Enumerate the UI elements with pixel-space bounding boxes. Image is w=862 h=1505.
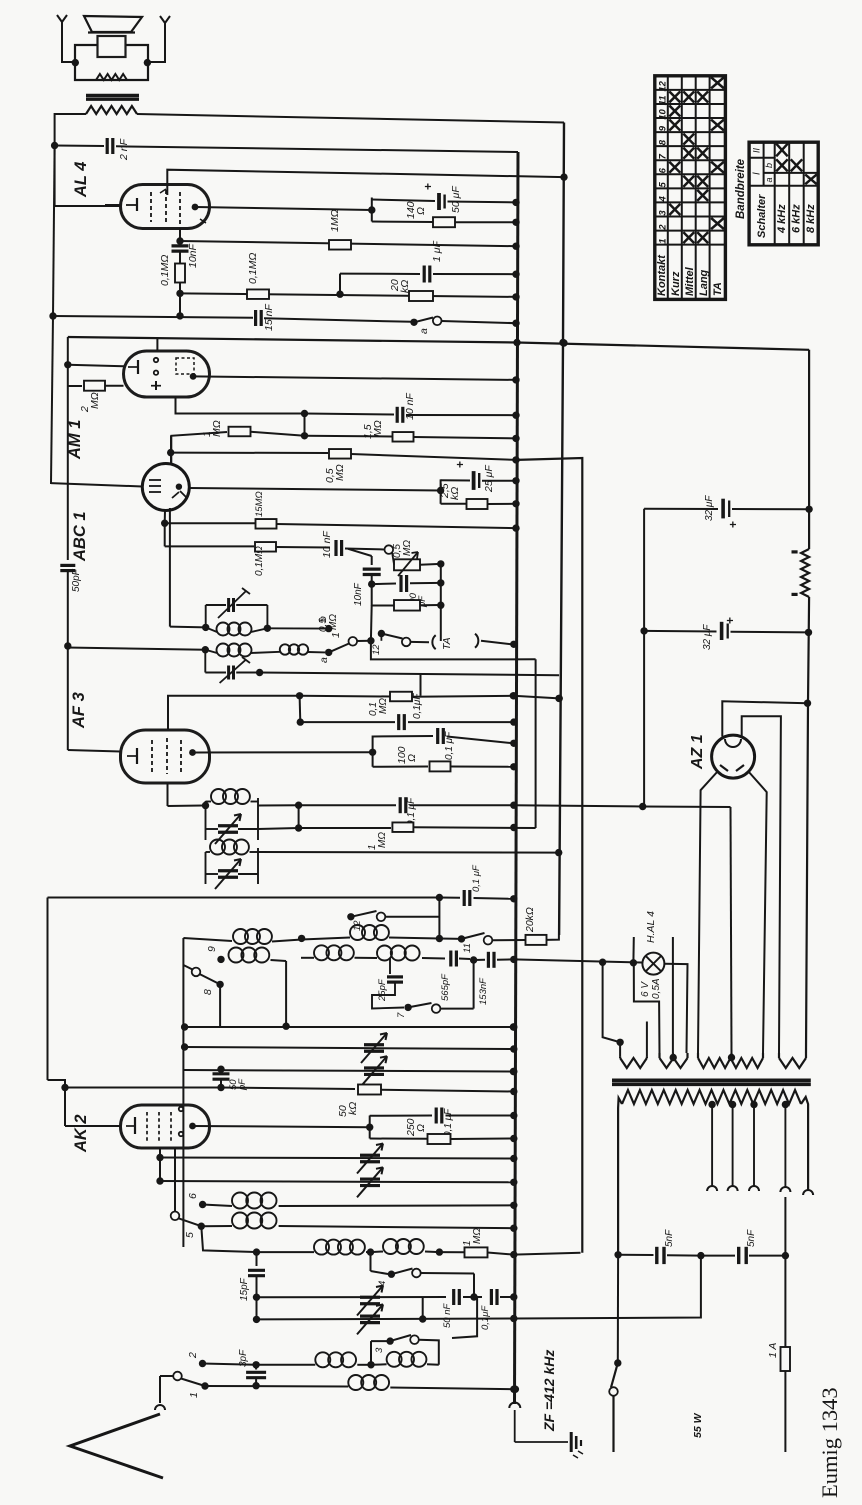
svg-text:50pF: 50pF xyxy=(71,568,82,592)
pilot lamp 6V 0.5A xyxy=(642,953,664,975)
tube AZ1 xyxy=(712,735,755,778)
svg-text:kΩ: kΩ xyxy=(399,280,411,293)
resistor 50kOhm xyxy=(358,1085,381,1095)
transformer secondary winding W1 xyxy=(619,1056,621,1058)
wire AK2 bottom leads xyxy=(159,1148,161,1181)
wire HT line y805 right of bus xyxy=(513,805,730,807)
svg-text:8: 8 xyxy=(202,989,214,995)
svg-text:8: 8 xyxy=(657,139,668,145)
svg-text:1: 1 xyxy=(330,632,342,638)
svg-text:AZ 1: AZ 1 xyxy=(689,734,706,770)
svg-text:MΩ: MΩ xyxy=(89,392,101,409)
svg-text:AK 2: AK 2 xyxy=(72,1114,90,1153)
AZ1 anodes xyxy=(720,765,744,771)
transformer primary winding xyxy=(622,1090,801,1104)
capacitor 50nF xyxy=(452,1289,455,1305)
svg-text:MΩ: MΩ xyxy=(378,698,389,714)
AK2 anode dot xyxy=(189,1123,196,1130)
bus1 hook break xyxy=(509,1403,520,1409)
svg-text:15pF: 15pF xyxy=(239,1277,250,1301)
bus2 vertical xyxy=(559,123,564,936)
AF3 internals xyxy=(136,748,138,764)
svg-text:3: 3 xyxy=(657,210,668,216)
svg-text:kΩ: kΩ xyxy=(347,1102,359,1115)
svg-text:1 μF: 1 μF xyxy=(431,240,443,262)
bus1 junction dots xyxy=(512,199,519,206)
svg-text:50 μF: 50 μF xyxy=(450,186,462,213)
capacitor 15nF xyxy=(254,310,257,326)
svg-text:MΩ: MΩ xyxy=(377,832,388,848)
svg-text:0,5A: 0,5A xyxy=(651,978,662,999)
wire left rail x68 down xyxy=(67,337,69,363)
IF transformer T3 trimmer xyxy=(218,824,238,827)
bus1 main vertical xyxy=(515,152,519,1404)
svg-text:ABC 1: ABC 1 xyxy=(71,511,89,562)
resistor 250 Ohm xyxy=(370,1138,427,1140)
coil L2b xyxy=(301,957,314,959)
wire 0.5M line xyxy=(171,452,328,454)
svg-text:AM 1: AM 1 xyxy=(66,420,84,460)
speaker LS xyxy=(84,16,142,32)
speaker terminal left xyxy=(57,15,75,62)
bracket to 1uF xyxy=(339,274,341,295)
winding W1 right stub xyxy=(646,1022,648,1057)
wire AK2 anode to 250/0.1 network xyxy=(193,1126,370,1127)
wire 1Mohm grid line xyxy=(171,432,227,463)
svg-text:b: b xyxy=(764,163,774,168)
IF transformer T1 trimmer xyxy=(227,598,230,612)
table Bandbreite X marks xyxy=(776,144,788,157)
wire y1157 line + trimmer xyxy=(160,1158,513,1159)
resistor 100 Ohm xyxy=(373,766,428,768)
wire y1319 line + trimmers xyxy=(256,1297,258,1319)
svg-text:Ω: Ω xyxy=(415,1124,427,1132)
resistor 20kOhm (band) xyxy=(493,939,526,941)
transformer secondary winding W2 with tap xyxy=(658,1053,660,1058)
ground symbol xyxy=(570,1432,573,1452)
svg-text:1: 1 xyxy=(188,1392,200,1398)
wire y1297 line xyxy=(257,1296,447,1298)
svg-text:Kurz: Kurz xyxy=(670,271,682,296)
IF transformer T3 coil xyxy=(202,802,209,809)
resistor 0.1Mohm (AF3 grid) xyxy=(300,695,390,698)
svg-text:11: 11 xyxy=(657,95,668,105)
switch contact a xyxy=(410,319,417,326)
wire band coil row1 xyxy=(183,938,232,941)
wire coil row y1364 xyxy=(199,1360,206,1367)
wire AF3 grid line y696 xyxy=(168,696,300,729)
wire AL4 cathode down xyxy=(179,228,181,241)
svg-text:11: 11 xyxy=(462,943,473,953)
bus2 dots xyxy=(555,695,562,702)
capacitor 5nF left xyxy=(618,1254,653,1256)
wire ABC1 anode to 25uF/2.5k bracket xyxy=(189,488,441,491)
wire AF3 bottom to IF T3 xyxy=(167,783,169,806)
fuse 1A xyxy=(784,1256,786,1347)
svg-text:+: + xyxy=(421,183,435,190)
svg-text:10nF: 10nF xyxy=(353,582,364,606)
wire right vertical x441 xyxy=(440,564,442,641)
svg-text:8 kHz: 8 kHz xyxy=(805,204,817,233)
AL4 cathode xyxy=(136,198,138,211)
svg-text:MΩ: MΩ xyxy=(334,464,346,481)
svg-text:32 μF: 32 μF xyxy=(704,495,715,521)
wire heater HT vertical x730 xyxy=(731,807,732,1053)
svg-text:Kontakt: Kontakt xyxy=(656,254,668,296)
svg-text:4 kHz: 4 kHz xyxy=(776,204,788,234)
capacitor 10nF (AM1) xyxy=(305,414,395,415)
switch 12 lower xyxy=(378,630,385,637)
svg-text:ZF =412 kHz: ZF =412 kHz xyxy=(541,1350,557,1432)
coil row y1226 xyxy=(201,1225,232,1227)
svg-text:1: 1 xyxy=(657,238,668,243)
coil antenna coupling to a xyxy=(280,644,290,654)
capacitor 0.1uF (AVC) xyxy=(463,890,466,906)
wire AM1 diode line xyxy=(176,397,305,413)
svg-text:0,1 μF: 0,1 μF xyxy=(471,864,482,892)
capacitor 0.1uF (AF3 grid) xyxy=(299,696,302,722)
resistor 0.1Mohm (ABC1 grid) xyxy=(165,545,254,547)
svg-text:MΩ: MΩ xyxy=(472,1228,483,1244)
svg-text:12: 12 xyxy=(371,644,382,655)
coil ant2 xyxy=(371,1363,387,1366)
svg-text:2: 2 xyxy=(187,1352,199,1359)
svg-text:Ω: Ω xyxy=(415,207,427,215)
resistor 1Mohm (AM1 grid) xyxy=(229,427,251,437)
capacitor 0.1uF (AK2) xyxy=(370,1115,432,1117)
coil L1a xyxy=(233,929,248,944)
wire AM1 anode line to bus xyxy=(193,376,517,380)
wire y828 left from T3 xyxy=(258,828,299,829)
wire right bus x809 xyxy=(808,350,810,549)
capacitor 5nF right xyxy=(701,1255,735,1257)
wire AK2 left feed xyxy=(65,1125,121,1127)
mains switch xyxy=(614,1359,621,1366)
AL4 grids dashed xyxy=(150,192,152,222)
svg-text:H.AL 4: H.AL 4 xyxy=(645,911,657,943)
capacitor 10nF under AL4 xyxy=(172,244,189,247)
svg-text:Bandbreite: Bandbreite xyxy=(735,158,747,219)
wire ABC1 grid left from rail xyxy=(50,483,52,484)
svg-text:I: I xyxy=(752,172,763,175)
wire y1087 line 50k xyxy=(61,1084,68,1091)
AM1 internals xyxy=(137,360,139,374)
switch 1 (a/b selector) xyxy=(329,644,349,653)
lamp left branch down to winding W1 xyxy=(603,962,621,1056)
svg-text:6: 6 xyxy=(657,167,668,173)
resistor 1Mohm xyxy=(329,240,351,250)
coil ant1 xyxy=(315,1352,330,1367)
wire AL4 left side to speaker loop xyxy=(55,205,120,207)
table Kontakt X marks xyxy=(669,91,680,102)
svg-text:Schalter: Schalter xyxy=(756,194,768,238)
svg-text:0,1μF: 0,1μF xyxy=(412,693,423,719)
svg-text:MΩ: MΩ xyxy=(402,540,413,556)
svg-text:5: 5 xyxy=(184,1232,196,1238)
svg-text:2 nF: 2 nF xyxy=(118,138,130,161)
antenna xyxy=(160,1375,174,1377)
coil osc1 xyxy=(257,1251,315,1253)
svg-text:6 kHz: 6 kHz xyxy=(791,204,803,233)
table Bandbreite grid xyxy=(749,142,818,245)
AZ1 cathode leads down xyxy=(698,771,718,1053)
plug hooks xyxy=(707,1186,717,1191)
resistor 15Mohm line xyxy=(165,522,255,524)
wire AM1 left cathode to rail xyxy=(68,365,124,366)
svg-text:9: 9 xyxy=(657,125,668,131)
switch contact + 0.5Mohm potentiometer xyxy=(385,545,394,554)
capacitor 0.1uF (y805) xyxy=(299,804,396,806)
resistor 0.1Mohm horizontal xyxy=(247,289,269,299)
transformer core xyxy=(612,1079,811,1083)
capacitor 25pF + switch 7 xyxy=(389,958,391,974)
tube AM1 xyxy=(124,351,210,397)
transformer secondary winding W4 xyxy=(778,1053,780,1058)
capacitor 153nF xyxy=(474,959,485,961)
svg-text:a: a xyxy=(764,177,774,182)
coil L1b xyxy=(302,938,350,940)
wire y1070 line xyxy=(183,1070,513,1072)
coil ant3 xyxy=(348,1375,363,1390)
wire down to 0.1M line xyxy=(164,523,166,546)
wire AF3 left feed xyxy=(68,750,121,752)
svg-text:565pF: 565pF xyxy=(440,973,451,1001)
switch 4 xyxy=(370,1252,372,1271)
svg-text:1 A: 1 A xyxy=(767,1343,779,1358)
wire y1047 line + trimmer xyxy=(185,1047,514,1049)
svg-text:7: 7 xyxy=(657,153,668,159)
lamp right branch to winding W2 xyxy=(664,964,687,1053)
transformer secondary winding W3 HV with tap xyxy=(697,1053,699,1058)
table Kontakt grid xyxy=(655,76,726,300)
wire primary left to node xyxy=(55,114,86,146)
switch 3 xyxy=(371,1340,390,1342)
capacitor 32uF lower xyxy=(640,627,647,634)
svg-text:Ω: Ω xyxy=(406,754,418,762)
speaker frame loop xyxy=(75,45,148,80)
connector x536 down xyxy=(535,659,537,828)
capacitor 0.1uF (AF3 anode) xyxy=(373,735,433,738)
svg-text:3pF: 3pF xyxy=(238,1349,249,1367)
wire 0.1M line right xyxy=(180,293,517,297)
capacitor 50uF electrolytic + 140 Ohm cathode network xyxy=(371,198,373,222)
resistor 1Mohm (osc) xyxy=(439,1251,464,1253)
AL4 anode dot xyxy=(192,204,199,211)
svg-text:+: + xyxy=(453,461,467,468)
wire ABC1 cathode down xyxy=(164,511,166,524)
output transformer primary winding xyxy=(86,106,137,114)
tube AK2 xyxy=(121,1105,210,1148)
svg-text:50 nF: 50 nF xyxy=(442,1303,453,1328)
capacitor 50pF on left rail xyxy=(60,564,75,567)
mains line from tap hook xyxy=(784,1197,786,1256)
wire y1318 to 5nF junction xyxy=(515,1256,701,1319)
capacitor 2nF xyxy=(55,145,104,148)
wire y1027 line xyxy=(185,1026,514,1028)
AZ1 top lead right xyxy=(742,716,781,1053)
svg-text:0,1μF: 0,1μF xyxy=(480,1305,491,1330)
wire left rail x52 down to ABC1 xyxy=(53,146,55,316)
IF transformer T1 coil xyxy=(206,627,217,632)
resistor 1.5Mohm xyxy=(305,435,393,438)
svg-text:10 nF: 10 nF xyxy=(321,531,333,558)
svg-text:55 W: 55 W xyxy=(692,1412,704,1438)
lamp return branch xyxy=(634,963,660,1053)
wire cathode line right (1Mohm line) xyxy=(180,241,517,246)
svg-text:II: II xyxy=(752,147,762,153)
resistor 0.1Mohm vertical xyxy=(175,264,185,283)
wire T2 line from left rail xyxy=(67,648,206,650)
primary left down to switch xyxy=(617,1108,619,1255)
svg-text:6: 6 xyxy=(187,1193,199,1199)
capacitor 3pF xyxy=(255,1365,257,1370)
switch 11 xyxy=(458,935,465,942)
svg-text:0,1MΩ: 0,1MΩ xyxy=(159,255,171,286)
AZ1 top lead left xyxy=(722,701,807,736)
AZ1 filament arc xyxy=(725,739,741,747)
svg-text:15 nF: 15 nF xyxy=(263,304,275,331)
wire AL4 anode line xyxy=(196,207,372,210)
wire x420 vertical xyxy=(420,675,422,696)
speaker voice-coil resistor xyxy=(96,74,127,80)
wire ABC1 bottom to T1 xyxy=(169,508,171,627)
wire 15nF line xyxy=(53,316,253,318)
svg-text:Mittel: Mittel xyxy=(684,266,696,296)
wire AVC line y897 xyxy=(48,897,438,899)
svg-text:0,1MΩ: 0,1MΩ xyxy=(247,253,259,284)
resistor 0.5Mohm xyxy=(329,449,351,459)
capacitor 565pF xyxy=(449,951,452,967)
svg-text:10: 10 xyxy=(657,108,668,119)
svg-text:5nF: 5nF xyxy=(746,1229,757,1247)
AK2 internals xyxy=(134,1117,136,1134)
terminal 9 + coil row2 xyxy=(217,956,224,963)
svg-text:2: 2 xyxy=(657,224,668,231)
switch 5 xyxy=(174,1148,176,1212)
ABC1 internals xyxy=(149,479,161,481)
AF3 anode dot xyxy=(189,749,196,756)
wire HT top frame line y337-350 xyxy=(68,337,809,350)
resistor 2Mohm xyxy=(68,385,82,387)
wire osc row y1252 xyxy=(201,1226,256,1252)
AM1 anode dot xyxy=(190,373,197,380)
speaker terminal right xyxy=(148,16,170,62)
primary right end xyxy=(801,1097,808,1190)
svg-text:7: 7 xyxy=(396,1012,407,1018)
capacitor 1uF xyxy=(340,273,420,275)
svg-text:Lang: Lang xyxy=(698,269,710,296)
wire AM1 grid top xyxy=(156,338,158,351)
IF transformer T4 coil xyxy=(205,852,207,884)
svg-text:32 μF: 32 μF xyxy=(702,624,713,650)
svg-text:25 μF: 25 μF xyxy=(483,465,495,493)
capacitor 10nF series xyxy=(334,540,337,556)
terminal 6 + coil xyxy=(199,1201,206,1208)
resistor 1Mohm (y828) xyxy=(299,827,391,829)
svg-text:AF 3: AF 3 xyxy=(70,692,88,729)
svg-text:MΩ: MΩ xyxy=(211,420,223,437)
svg-text:a: a xyxy=(418,328,430,334)
wire to ground xyxy=(515,1441,568,1443)
capacitor 25uF electrolytic xyxy=(441,479,470,481)
svg-text:b: b xyxy=(317,616,329,622)
wire 10nF top connection xyxy=(348,549,372,556)
tube ABC1 xyxy=(142,464,189,511)
resistor 20kOhm xyxy=(409,291,433,301)
capacitor 10nF vertical + 200pF line xyxy=(371,556,373,565)
svg-text:MΩ: MΩ xyxy=(372,420,384,437)
svg-text:a: a xyxy=(318,657,330,663)
primary taps xyxy=(708,1101,715,1108)
capacitor 50pF hanging xyxy=(213,1072,230,1075)
svg-text:25pF: 25pF xyxy=(377,978,388,1002)
resistor 2.5kOhm xyxy=(441,503,466,505)
wire y805 HT line left segment xyxy=(258,804,299,806)
tube AF3 xyxy=(121,730,210,783)
IF transformer T2 coil xyxy=(205,650,217,653)
svg-text:0,1 μF: 0,1 μF xyxy=(444,731,455,760)
svg-text:TA: TA xyxy=(712,282,724,296)
wire lamp line y962 xyxy=(513,959,642,962)
wire AVC rail down to AK2 xyxy=(47,898,49,1081)
svg-text:153nF: 153nF xyxy=(478,977,489,1005)
lamp stubs up xyxy=(632,937,634,963)
svg-text:+: + xyxy=(723,617,737,624)
svg-text:pF: pF xyxy=(237,1078,248,1091)
svg-text:Eumig 1343: Eumig 1343 xyxy=(817,1387,842,1498)
terminal TA forks xyxy=(432,635,435,649)
svg-text:10 nF: 10 nF xyxy=(404,393,416,420)
svg-text:0,1 μF: 0,1 μF xyxy=(443,1108,454,1137)
wire AF3 anode line xyxy=(193,751,373,753)
svg-text:9: 9 xyxy=(206,946,218,952)
wire x371 vertical down to y659 line xyxy=(370,605,373,641)
IF transformer T4 trimmer xyxy=(218,869,238,872)
resistor 140 Ohm xyxy=(372,221,433,224)
svg-text:12: 12 xyxy=(657,80,668,91)
svg-text:TA: TA xyxy=(441,637,453,650)
svg-text:1MΩ: 1MΩ xyxy=(329,209,341,232)
svg-text:15MΩ: 15MΩ xyxy=(254,491,265,517)
wire AL4 plate left feed xyxy=(105,204,120,206)
wire x644 down to HT line xyxy=(643,631,645,807)
wire AL4 grid to top line xyxy=(167,170,564,195)
wire primary right - long line to bus2 top xyxy=(137,114,564,123)
output transformer core xyxy=(86,94,139,97)
svg-text:20kΩ: 20kΩ xyxy=(524,907,536,933)
wire to terminal b xyxy=(267,627,325,629)
capacitor 0.1uF (y1297) xyxy=(490,1289,493,1305)
capacitor 32uF upper xyxy=(643,509,645,631)
tube AL4 xyxy=(121,185,210,229)
svg-text:3: 3 xyxy=(374,1347,385,1353)
capacitor 15pF xyxy=(256,1252,258,1266)
IF transformer T1 frame xyxy=(205,605,207,627)
svg-text:4: 4 xyxy=(657,196,668,203)
wire 0.5M line to bus3 xyxy=(517,458,582,1253)
svg-text:10nF: 10nF xyxy=(187,243,199,268)
coil L2c xyxy=(377,946,392,961)
svg-text:6 V: 6 V xyxy=(640,981,651,997)
coil osc2 xyxy=(371,1251,384,1254)
wire y1181 line + trimmer xyxy=(160,1181,513,1182)
svg-text:5: 5 xyxy=(657,181,668,187)
switch 12 line xyxy=(347,913,354,920)
wire y672 line to bus2 xyxy=(260,673,559,676)
switch 8 and terminal xyxy=(192,968,201,977)
choke zigzag on right bus xyxy=(801,549,809,597)
IF transformer T2 frame + trimmer xyxy=(204,650,206,673)
